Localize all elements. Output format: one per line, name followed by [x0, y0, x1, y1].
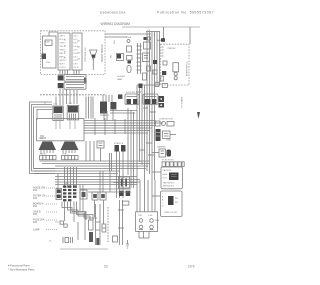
wire: [189, 27, 191, 44]
wire: [110, 112, 135, 114]
wire: [108, 95, 110, 102]
svg-text:PWB INV: PWB INV: [168, 48, 177, 50]
relay K1: [42, 54, 47, 60]
wire: [73, 90, 75, 104]
svg-text:PRIMARY: PRIMARY: [100, 114, 110, 117]
svg-text:CTM: CTM: [148, 215, 153, 217]
svg-text:CONTROL CN: CONTROL CN: [85, 47, 87, 62]
wire: [59, 70, 61, 75]
svg-text:H.V. TRANS: H.V. TRANS: [181, 96, 184, 108]
lower vertical bus wires: [137, 85, 160, 212]
svg-text:FAN M: FAN M: [40, 153, 46, 156]
outline pair: [162, 83, 167, 87]
wire: [85, 97, 87, 119]
relay RY2: [159, 103, 165, 108]
monitor switch S1: [161, 38, 165, 42]
svg-text:23: 23: [104, 265, 108, 269]
arrow marker: [197, 112, 200, 119]
note box: [161, 167, 183, 189]
terminal strip CN1: [58, 33, 70, 70]
transformer T1: [53, 106, 64, 121]
switch SW3: [118, 94, 122, 99]
wire left loop: [32, 105, 56, 172]
svg-text:A1: A1: [78, 40, 80, 43]
connector housing J3: [40, 156, 57, 160]
oven lamp dashed wire: [107, 207, 109, 242]
varistor RV1: [127, 40, 130, 43]
led component: [84, 78, 87, 84]
svg-text:K2: K2: [64, 46, 66, 48]
svg-text:D4 5: D4 5: [74, 50, 78, 52]
wire: [118, 200, 124, 245]
svg-text:#14: #14: [33, 205, 38, 208]
wire: [79, 185, 81, 212]
relay RY1: [159, 96, 165, 102]
svg-text:# Functional Parts: # Functional Parts: [8, 264, 30, 268]
transformer T2: [67, 105, 79, 120]
component stack right: [147, 60, 158, 74]
control panel box U1: [43, 36, 57, 68]
svg-text:* Non-Illustrated Parts: * Non-Illustrated Parts: [8, 268, 35, 272]
svg-text:FM: FM: [111, 55, 113, 58]
svg-text:W1: W1: [175, 198, 178, 200]
connector housing J2: [64, 82, 86, 89]
main power board box: [37, 119, 85, 141]
svg-text:CN-C: CN-C: [64, 183, 70, 185]
svg-text:D2 3: D2 3: [74, 43, 78, 45]
wire drops to pin header: [58, 167, 110, 192]
bottom rail wire: [60, 248, 108, 250]
svg-text:K1: K1: [64, 40, 66, 42]
wire: [84, 212, 86, 240]
svg-text:WHT 8: WHT 8: [60, 60, 66, 62]
relay block K4: [100, 192, 106, 200]
wire: [80, 188, 131, 190]
wire: [69, 90, 71, 104]
svg-text:DAMPER: DAMPER: [157, 146, 166, 149]
label leader wires: [46, 188, 58, 230]
wire: [78, 70, 80, 75]
svg-text:TCO: TCO: [55, 222, 60, 224]
wire: [49, 32, 58, 36]
terminal strip CN2: [72, 33, 82, 70]
wire: [88, 97, 90, 119]
terminal row: [162, 162, 184, 167]
motor box: [136, 212, 158, 232]
wire stub: [152, 195, 161, 197]
wire: [105, 95, 107, 102]
connector housing J1: [64, 75, 86, 82]
svg-text:VIO 10: VIO 10: [60, 67, 66, 69]
svg-text:A4: A4: [78, 58, 80, 61]
wire: [163, 27, 165, 39]
bus tick: [136, 92, 156, 155]
relay block K3: [92, 192, 98, 200]
svg-text:SEE NOTE 2: SEE NOTE 2: [163, 183, 174, 185]
svg-text:#16: #16: [33, 221, 38, 224]
ladder rungs: [137, 43, 142, 74]
svg-text:K3: K3: [64, 52, 66, 54]
wire drop: [93, 141, 95, 161]
svg-text:E30MO65GSSA: E30MO65GSSA: [100, 11, 126, 15]
wire: [111, 95, 113, 102]
svg-text:10-9: 10-9: [188, 265, 195, 269]
interlock switch SW2: [110, 102, 116, 109]
fuse F2 chain: [156, 121, 175, 126]
side connector: [56, 189, 62, 200]
wire: [73, 202, 75, 223]
wire: [76, 90, 78, 104]
resistor R1 dark: [117, 54, 121, 59]
svg-text:TTM: TTM: [138, 215, 142, 217]
wire: [103, 111, 105, 121]
wire pair: [110, 153, 112, 171]
wire stub: [152, 171, 161, 173]
wire: [103, 200, 105, 224]
resistor R1 outline: [117, 54, 124, 61]
wire: [62, 202, 86, 221]
svg-text:CN-A: CN-A: [126, 36, 132, 39]
wire: [102, 95, 104, 102]
relay block K2: [80, 190, 87, 199]
svg-text:LAMP: LAMP: [33, 229, 40, 232]
wire: [64, 202, 66, 222]
thermistor pill: [127, 66, 131, 73]
transformer T3: [39, 142, 57, 154]
wire labels column: [33, 187, 46, 232]
dark box on bus: [139, 84, 143, 89]
wire: [77, 222, 79, 240]
svg-text:VOLT: VOLT: [163, 178, 169, 180]
smart board dashed enclosure: [41, 31, 106, 75]
svg-text:Publication No. 5995573067: Publication No. 5995573067: [157, 11, 214, 15]
inverter dark component: [162, 71, 166, 75]
svg-text:#13: #13: [33, 197, 38, 200]
wire: [64, 70, 66, 75]
connector housing J4: [62, 156, 79, 160]
wire: [55, 97, 57, 106]
svg-text:CN61: CN61: [166, 140, 172, 142]
wire: [73, 70, 75, 75]
svg-text:SMART BOARD: SMART BOARD: [101, 44, 104, 62]
wire: [94, 200, 96, 217]
wire probe cluster: [63, 237, 73, 243]
svg-text:BLK 9: BLK 9: [60, 64, 65, 66]
vertical feeder wires: [128, 108, 134, 188]
harness dashed wire: [40, 94, 105, 96]
component pair: [152, 149, 171, 157]
tick box: [143, 53, 150, 62]
small box on bus: [155, 82, 159, 86]
small box cluster: [144, 37, 151, 49]
component C2: [127, 56, 133, 64]
top leader wire: [122, 26, 200, 28]
wire: [68, 202, 91, 221]
svg-text:DOOR SW: DOOR SW: [126, 92, 135, 94]
svg-text:K4: K4: [64, 58, 66, 60]
thermal cutout TH2: [89, 220, 94, 242]
capacitor C1: [127, 46, 132, 52]
board internal leads: [56, 120, 75, 129]
svg-text:D0 1: D0 1: [74, 36, 78, 38]
diode pair: [119, 191, 130, 205]
wire: [92, 97, 94, 119]
svg-text:ORN 3: ORN 3: [60, 43, 66, 45]
wire: [62, 89, 64, 105]
wire: [105, 33, 151, 35]
thermostat TH1: [60, 221, 67, 227]
svg-text:#12: #12: [33, 189, 38, 192]
svg-text:RY A RY B: RY A RY B: [114, 142, 124, 145]
wire: [66, 89, 68, 104]
svg-text:A3: A3: [78, 52, 80, 55]
connector block J5: [156, 129, 177, 141]
wire: [88, 191, 131, 193]
wire drop: [89, 141, 91, 161]
upper vertical bus wires: [146, 32, 160, 86]
small outline box: [143, 73, 147, 80]
magnetron MG1: [173, 63, 179, 80]
svg-text:WIRING DIAGRAM: WIRING DIAGRAM: [101, 22, 131, 26]
wire left loop: [34, 107, 56, 169]
transformer T4: [61, 142, 79, 154]
wire left loop: [30, 102, 56, 174]
wire: [157, 39, 161, 41]
lower bus wires: [34, 161, 150, 185]
svg-text:WIRE COLOR: WIRE COLOR: [165, 212, 178, 214]
capacitor box: [113, 236, 118, 242]
wire: [62, 70, 64, 75]
svg-text:N L1: N L1: [114, 40, 116, 44]
svg-text:P1 P2 P3 P4: P1 P2 P3 P4: [162, 160, 174, 162]
svg-text:D8 9: D8 9: [74, 64, 78, 66]
relay module block: [114, 142, 126, 198]
door switch box right: [143, 94, 158, 105]
buzzer BZ1: [90, 50, 98, 70]
connector J2: [58, 83, 64, 88]
wire: [112, 110, 114, 121]
wire: [76, 70, 78, 75]
door switch box left: [125, 94, 139, 105]
capacitor C10: [113, 177, 137, 188]
strip text CN1: [46, 40, 80, 61]
svg-text:D9 10: D9 10: [74, 67, 79, 69]
svg-text:LAMP: LAMP: [117, 78, 123, 81]
wire: [67, 70, 69, 75]
svg-text:A2: A2: [78, 46, 80, 49]
wire: [106, 111, 108, 121]
cavity ladder: [96, 204, 101, 245]
inverter connector: [161, 47, 167, 81]
motor lead wires: [139, 231, 149, 238]
legend box: [161, 191, 183, 217]
svg-text:CAUTION: CAUTION: [163, 169, 172, 172]
svg-text:CONV MOTOR: CONV MOTOR: [159, 119, 173, 121]
inverter dashed enclosure: [161, 44, 190, 85]
interlock switch SW1: [100, 102, 107, 114]
wire drop: [85, 141, 87, 161]
key pad symbol: [45, 40, 52, 46]
svg-text:GRY 1: GRY 1: [60, 36, 66, 38]
wire: [77, 202, 94, 221]
connector J1: [58, 75, 64, 80]
svg-text:W2: W2: [175, 202, 178, 204]
svg-text:H.OVEN: H.OVEN: [117, 76, 125, 78]
pin header P1: [63, 186, 76, 202]
ground terminal: [126, 240, 129, 248]
wire: [59, 89, 61, 105]
wire: [82, 185, 84, 212]
bus wires to right: [84, 118, 163, 135]
wire: [110, 110, 137, 112]
svg-text:#15: #15: [33, 213, 38, 216]
humidity sensor: [102, 224, 106, 232]
board bottom marks: [40, 136, 46, 138]
sensor box: [97, 141, 104, 161]
wire: [105, 36, 127, 38]
wire: [90, 97, 92, 119]
svg-text:SEE NOTE 3: SEE NOTE 3: [163, 186, 174, 188]
wire: [71, 202, 98, 219]
svg-text:HIGH: HIGH: [163, 174, 168, 176]
svg-text:INVERTER U2: INVERTER U2: [187, 61, 189, 76]
wire left loop: [37, 110, 52, 121]
